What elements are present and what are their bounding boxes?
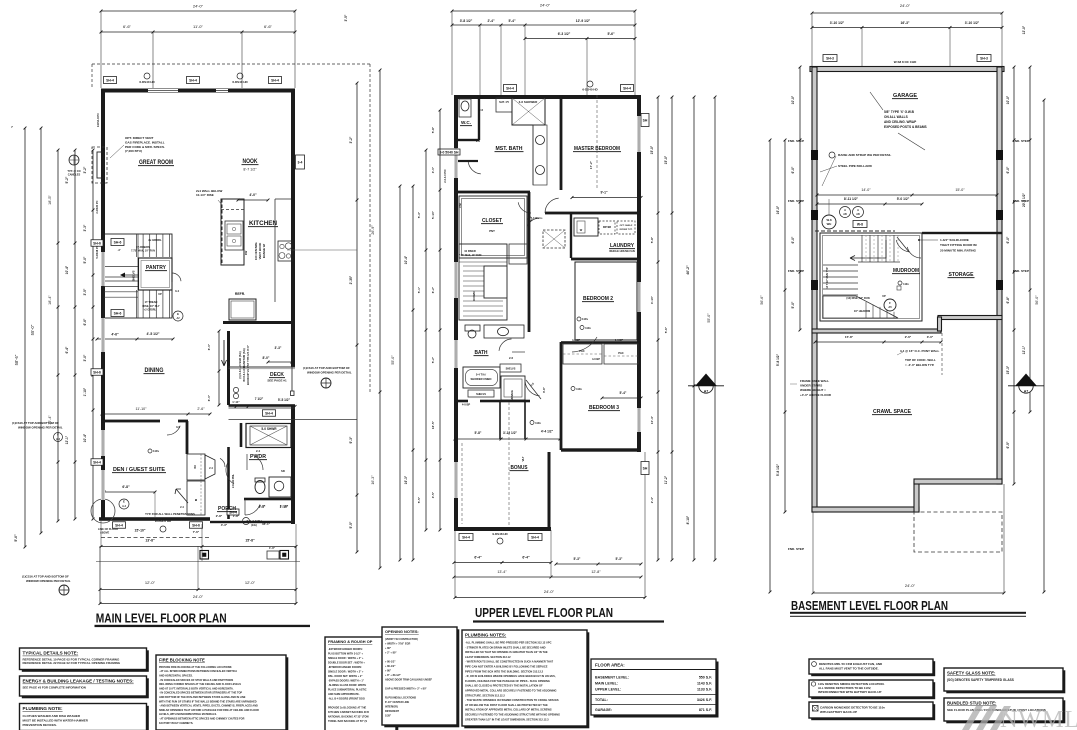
svg-text:56'-0": 56'-0" — [1035, 295, 1039, 305]
svg-text:2'-4": 2'-4" — [487, 19, 495, 23]
main plan left exterior wall — [101, 89, 105, 520]
svg-text:MUDROOM: MUDROOM — [893, 268, 919, 274]
svg-text:SH-4: SH-4 — [106, 79, 114, 83]
master bath vanity — [533, 125, 547, 185]
svg-text:6'-0": 6'-0" — [1006, 236, 1010, 243]
svg-text:24'-0": 24'-0" — [540, 3, 551, 8]
main plan left dimension lines — [14, 127, 94, 549]
svg-text:AA: AA — [1023, 381, 1029, 385]
stairs texts — [131, 238, 162, 312]
section marker AA/A7 basement — [1008, 374, 1044, 394]
svg-text:110v: 110v — [903, 282, 909, 286]
svg-text:WINDOW OPENING PER DETAIL: WINDOW OPENING PER DETAIL — [18, 426, 63, 430]
svg-text:FACTORY BUILT CHIMNEYS.: FACTORY BUILT CHIMNEYS. — [159, 722, 194, 725]
svg-text:18'-5": 18'-5" — [48, 195, 52, 205]
fire blocking note block — [158, 657, 288, 730]
svg-text:(EG): (EG) — [251, 523, 257, 527]
svg-text:INTERCONNECTED WITH BATTERY BA: INTERCONNECTED WITH BATTERY BACK-UP — [818, 690, 881, 694]
svg-text:5'-4": 5'-4" — [620, 391, 627, 395]
svg-text:- TUB WASTE OPENINGS IN FR: - TUB WASTE OPENINGS IN FRAMED CONSTRUCT… — [465, 698, 559, 702]
svg-text:5'-0 1/2": 5'-0 1/2" — [897, 197, 910, 201]
svg-text:15'-8": 15'-8" — [245, 539, 255, 543]
svg-text:HOOKUP VG PST TYP. HT. 8'-0": HOOKUP VG PST TYP. HT. 8'-0" — [246, 344, 250, 385]
opening notes block — [384, 629, 459, 727]
svg-text:10 RISER: 10 RISER — [464, 249, 476, 253]
svg-text:4'-5 1/2": 4'-5 1/2" — [147, 332, 160, 336]
svg-text:SHALL BE CLOSED & PROTECTE: SHALL BE CLOSED & PROTECTED BY THE INSTA… — [465, 684, 543, 688]
svg-text:STORAGE: STORAGE — [949, 272, 975, 278]
svg-text:6'-0": 6'-0" — [207, 343, 211, 350]
svg-text:SH-6: SH-6 — [192, 524, 200, 528]
stairs main level — [104, 234, 172, 318]
basement stairs arrow and notes — [826, 240, 896, 313]
svg-text:FND. STEP: FND. STEP — [788, 269, 804, 273]
svg-text:NOOK: NOOK — [243, 159, 259, 165]
room label BEDROOM 2 — [575, 262, 637, 340]
chase box — [509, 244, 527, 264]
svg-text:7.73" MAX, 10" RUN: 7.73" MAX, 10" RUN — [131, 250, 155, 253]
svg-text:55'-0": 55'-0" — [707, 313, 711, 323]
upper left dimension columns — [391, 109, 441, 562]
svg-text:PLUS BOTTOM WITH 3-1/2" +: PLUS BOTTOM WITH 3-1/2" + — [328, 652, 364, 655]
svg-text:3-6 SHOWER: 3-6 SHOWER — [519, 100, 539, 104]
svg-text:8'-0": 8'-0" — [263, 356, 270, 360]
svg-text:3'-10 1/2": 3'-10 1/2" — [830, 21, 845, 25]
svg-text:5'-0": 5'-0" — [791, 301, 795, 308]
svg-text:NWMLS: NWMLS — [1000, 706, 1077, 730]
svg-text:SH-4: SH-4 — [462, 536, 470, 540]
svg-text:TIGHT FITTING DOOR W/: TIGHT FITTING DOOR W/ — [940, 243, 977, 247]
bonus header boxes below — [459, 532, 542, 544]
svg-text:5-DS48 PC: 5-DS48 PC — [95, 245, 99, 258]
svg-text:SH-4: SH-4 — [531, 536, 539, 540]
closet room — [458, 196, 527, 258]
svg-text:AND HORIZONTAL SPACES.: AND HORIZONTAL SPACES. — [159, 674, 193, 677]
svg-text:FND. STEP: FND. STEP — [788, 547, 804, 551]
svg-text:3426 S.F.: 3426 S.F. — [697, 698, 712, 702]
floor area table — [591, 659, 719, 718]
svg-text:110v: 110v — [153, 449, 160, 453]
framing and rough opening note block — [327, 639, 398, 730]
svg-text:TYPICAL DETAILS NOTE:: TYPICAL DETAILS NOTE: — [23, 651, 79, 656]
hall wall upper mid — [528, 192, 531, 332]
svg-text:SHOWER CMBO: SHOWER CMBO — [470, 377, 491, 381]
svg-text:DENOTES MIN. 50 CFM EXHAUST FA: DENOTES MIN. 50 CFM EXHAUST FAN, AND — [819, 662, 883, 666]
tub shower combo — [463, 364, 521, 397]
svg-text:(1)CS16 AT TOP AND BOTTOM OF: (1)CS16 AT TOP AND BOTTOM OF — [22, 575, 69, 579]
porch posts — [96, 546, 300, 562]
svg-text:SD: SD — [281, 469, 285, 473]
svg-text:APPROVED METAL COLLARS SECU: APPROVED METAL COLLARS SECURELY FASTENED… — [465, 689, 557, 693]
svg-text:STEEL PIPE BOLLARD: STEEL PIPE BOLLARD — [838, 164, 873, 168]
svg-text:2x GRDRL: 2x GRDRL — [148, 238, 162, 242]
svg-text:GARAGE: GARAGE — [893, 93, 917, 99]
svg-text:A7: A7 — [1024, 390, 1029, 394]
svg-text:-3': -3' — [118, 248, 121, 252]
svg-text:SH-6: SH-6 — [114, 241, 122, 245]
main plan bottom wall den — [99, 517, 210, 521]
smoke detection note box — [811, 682, 935, 699]
svg-text:PORCH: PORCH — [218, 506, 236, 512]
svg-text:DEN / GUEST SUITE: DEN / GUEST SUITE — [113, 467, 166, 473]
main plan bottom wall headers — [113, 519, 203, 534]
svg-text:3'-2": 3'-2" — [83, 166, 87, 173]
master bedroom dim 9'-1" — [571, 191, 643, 199]
upper right dimension columns — [641, 96, 716, 562]
svg-text:15'-0": 15'-0" — [650, 145, 654, 154]
svg-text:FND. STEP: FND. STEP — [1013, 139, 1029, 143]
svg-text:58'-6": 58'-6" — [14, 354, 19, 365]
upper plan step wall bonus-bedroom3 — [548, 452, 551, 529]
svg-text:MUST BE INSTALLED WITH WATE: MUST BE INSTALLED WITH WATER-HAMMER — [23, 719, 89, 723]
svg-text:3'-5": 3'-5" — [344, 14, 348, 21]
main level plan — [11, 4, 381, 628]
basement bottom dim — [812, 484, 1006, 594]
svg-text:6'-2": 6'-2" — [431, 286, 435, 293]
svg-text:ALL FANS MUST VENT TO THE OUTS: ALL FANS MUST VENT TO THE OUTSIDE. — [819, 667, 879, 671]
svg-text:BUNDLED STUD NOTE:: BUNDLED STUD NOTE: — [947, 701, 997, 706]
svg-text:DECK: DECK — [270, 372, 284, 378]
svg-text:2-DS30 PC: 2-DS30 PC — [95, 200, 99, 213]
svg-text:5'-5 1/2": 5'-5 1/2" — [278, 398, 291, 402]
svg-text:BASEMENT LEVEL:: BASEMENT LEVEL: — [595, 676, 629, 680]
svg-text:GAP & PRESSED WIDTH + 2" + 80: GAP & PRESSED WIDTH + 2" + 80" — [385, 687, 427, 690]
svg-text:5'-8 1/2": 5'-8 1/2" — [776, 353, 780, 366]
svg-text:OPT. SHELF: OPT. SHELF — [620, 225, 633, 227]
svg-text:SH-4: SH-4 — [265, 412, 273, 416]
upper plan window gaps — [454, 116, 641, 498]
laundry room — [570, 213, 635, 258]
bedroom3 entry arcs — [571, 326, 642, 400]
svg-text:INSTALLED SO THAT NO OPENING I: INSTALLED SO THAT NO OPENING IS GREATER … — [465, 650, 548, 654]
svg-text:18'-4": 18'-4" — [48, 295, 52, 305]
svg-text:- IF, OR IN BUILDINGS WHERE: - IF, OR IN BUILDINGS WHERE OPENINGS HAV… — [465, 674, 556, 678]
svg-text:AND SHIM APPROPRIATE.: AND SHIM APPROPRIATE. — [328, 693, 360, 696]
svg-text:16'-3": 16'-3" — [901, 21, 910, 25]
svg-text:E: E — [123, 500, 125, 504]
svg-text:KITCHEN: KITCHEN — [249, 221, 277, 227]
plumbing notes block upper — [464, 632, 589, 728]
svg-text:(13) RISE, 10" RUN: (13) RISE, 10" RUN — [846, 296, 869, 300]
svg-text:SH-6: SH-6 — [93, 371, 101, 375]
kitchen south wall — [223, 321, 295, 324]
room label MUDROOM — [892, 268, 920, 290]
svg-text:5'-3": 5'-3" — [417, 211, 421, 218]
attic access — [543, 230, 565, 248]
svg-text:10-1/4" RISE: 10-1/4" RISE — [196, 193, 214, 197]
svg-text:A5: A5 — [888, 305, 892, 309]
svg-text:+ 80": + 80" — [385, 647, 392, 650]
svg-text:CRAWL SPACE: CRAWL SPACE — [873, 409, 911, 415]
raise and strap note — [820, 152, 891, 186]
dining dim line 4-6 4-5half — [96, 332, 175, 340]
svg-text:6'-4": 6'-4" — [474, 556, 482, 560]
upper plan top dim line 3 — [524, 32, 637, 95]
svg-text:SH-4: SH-4 — [115, 524, 123, 528]
svg-text:UP: UP — [882, 294, 886, 298]
bedroom3 closets — [561, 338, 641, 364]
knee wall note — [790, 379, 832, 397]
basement stairs lower flight — [823, 265, 898, 318]
svg-text:E: E — [177, 312, 179, 316]
svg-text:A: A — [844, 208, 846, 212]
svg-text:AND CEILING. WRAP: AND CEILING. WRAP — [884, 120, 917, 124]
storage floor step — [814, 316, 1002, 376]
svg-text:110v: 110v — [582, 317, 589, 321]
garage gwb note — [870, 92, 927, 150]
svg-text:3'-3": 3'-3" — [83, 224, 87, 231]
svg-text:INCLUDING FURRED SPACES AT THE: INCLUDING FURRED SPACES AT THE CEILING A… — [159, 683, 241, 686]
svg-text:2'-6": 2'-6" — [197, 407, 205, 411]
svg-text:AND BOTTOM OF THE RUN AND BET: AND BOTTOM OF THE RUN AND BETWEEN STUDS … — [159, 696, 246, 699]
svg-text:2-4: 2-4 — [180, 505, 184, 509]
svg-text:FND. STEP: FND. STEP — [788, 139, 804, 143]
main plan right dimension lines — [11, 14, 381, 569]
basement header boxes — [823, 55, 991, 65]
svg-text:9'-3": 9'-3" — [349, 436, 353, 443]
svg-text:56'-6": 56'-6" — [760, 295, 764, 305]
svg-text:12'-8": 12'-8" — [591, 570, 601, 574]
svg-text:SINGLE DOOR : WIDTH + 2" +: SINGLE DOOR : WIDTH + 2" + — [328, 670, 364, 673]
svg-text:4'-0": 4'-0" — [249, 193, 257, 197]
stair wall header boxes — [111, 239, 183, 322]
main plan top wall window headers — [148, 89, 228, 92]
svg-text:(1)CS16 AT TOP AND BOTTOM OF: (1)CS16 AT TOP AND BOTTOM OF — [12, 421, 59, 425]
svg-text:- AT OPENINGS BETWEEN ATTIC SP: - AT OPENINGS BETWEEN ATTIC SPACES AND C… — [159, 717, 245, 720]
svg-text:UPPER LEVEL FLOOR PLAN: UPPER LEVEL FLOOR PLAN — [475, 605, 613, 620]
svg-text:100 CFM MIN.: 100 CFM MIN. — [254, 242, 258, 260]
svg-text:1/28": 1/28" — [385, 714, 392, 717]
svg-text:GREAT ROOM: GREAT ROOM — [139, 160, 173, 166]
room label DEN / GUEST SUITE — [112, 449, 166, 473]
water heater circles — [822, 199, 867, 229]
svg-text:16'-3": 16'-3" — [371, 475, 375, 485]
svg-text:WI: WI — [193, 465, 197, 469]
svg-text:1133 S.F.: 1133 S.F. — [697, 688, 712, 692]
svg-text:14'-0": 14'-0" — [861, 188, 871, 192]
stairs direction arrow — [118, 248, 158, 278]
svg-text:CLOSET: CLOSET — [482, 218, 503, 224]
left wall window gaps — [101, 252, 105, 500]
svg-text:F: F — [57, 433, 59, 437]
svg-text:KITCHEN CABINET BACKING IN B: KITCHEN CABINET BACKING IN B — [328, 711, 369, 714]
svg-text:+ 2" + 80": + 2" + 80" — [385, 651, 397, 654]
svg-text:-BYPASS DOORS: WIDTH + 1": -BYPASS DOORS: WIDTH + 1" — [328, 679, 365, 682]
svg-text:3'-0": 3'-0" — [927, 335, 934, 339]
main plan header label boxes SH-4 — [104, 73, 282, 84]
svg-text:10'-0": 10'-0" — [1006, 95, 1010, 104]
porch front door arc — [245, 499, 260, 515]
pantry door — [172, 273, 181, 293]
svg-text:SH-4: SH-4 — [189, 79, 197, 83]
svg-text:VENT HOOD: VENT HOOD — [258, 243, 262, 260]
svg-text:A-2: A-2 — [122, 505, 127, 508]
svg-text:PLUMBING NOTE:: PLUMBING NOTE: — [23, 706, 64, 711]
svg-text:WH: WH — [827, 222, 832, 226]
svg-text:4'-3": 4'-3" — [221, 523, 228, 527]
svg-text:9'-1": 9'-1" — [600, 191, 608, 195]
svg-text:7.75" MAX, 10" RUN: 7.75" MAX, 10" RUN — [459, 254, 482, 257]
svg-text:+ 80-1/2": + 80-1/2" — [385, 665, 396, 668]
svg-text:2-4: 2-4 — [209, 466, 213, 470]
svg-text:4'-4 1/2": 4'-4 1/2" — [541, 430, 554, 434]
main plan title — [95, 611, 311, 628]
basement top dim line2 — [811, 21, 1004, 67]
main plan bottom dim line 13-8 15-8 — [100, 521, 298, 561]
svg-text:4-0 BP: 4-0 BP — [462, 403, 471, 407]
nook dimension 4'-0" — [237, 193, 270, 201]
hall door arcs — [518, 202, 542, 227]
svg-text:FLOOR AREA:: FLOOR AREA: — [595, 663, 625, 668]
svg-text:16'-5": 16'-5" — [431, 420, 435, 429]
svg-text:GARAGE:: GARAGE: — [595, 708, 612, 712]
basement foundation walls — [810, 67, 1004, 513]
svg-text:3'-0": 3'-0" — [431, 166, 435, 173]
svg-text:5'-1": 5'-1" — [417, 286, 421, 293]
powder toilet and sink — [255, 469, 291, 497]
svg-text:AB: AB — [856, 213, 860, 216]
svg-text:3'-5": 3'-5" — [431, 491, 435, 498]
svg-text:PNT: PNT — [489, 229, 495, 233]
svg-text:5'-8": 5'-8" — [431, 126, 435, 133]
svg-text:1'-10": 1'-10" — [83, 387, 87, 396]
svg-text:+ 80-1/2": + 80-1/2" — [385, 660, 396, 663]
svg-text:SH-6: SH-6 — [93, 242, 101, 246]
svg-text:GAS FIREPLACE. INSTALL: GAS FIREPLACE. INSTALL — [125, 140, 165, 144]
svg-text:6'-8": 6'-8" — [122, 485, 130, 489]
svg-text:8'-10" CENTER LINE: 8'-10" CENTER LINE — [385, 701, 409, 704]
basement stairs upper flight — [858, 235, 900, 262]
plumbing note block — [22, 706, 149, 730]
svg-text:110v: 110v — [533, 216, 540, 220]
svg-text:PIPES FROM THE BOX INTO THE: PIPES FROM THE BOX INTO THE BUILDING. SE… — [465, 669, 544, 673]
mst bath wall and door — [456, 95, 562, 193]
fireplace note text — [110, 136, 165, 158]
svg-text:9-DS3-0 HD: 9-DS3-0 HD — [155, 519, 172, 523]
svg-text:PLUMBING NOTES:: PLUMBING NOTES: — [465, 633, 507, 638]
powder door — [247, 454, 263, 470]
svg-text:5-4 T/A /: 5-4 T/A / — [476, 373, 487, 377]
svg-text:BEDROOM 2: BEDROOM 2 — [583, 296, 613, 302]
svg-text:2-6: 2-6 — [509, 356, 513, 360]
upper plan top exterior wall — [454, 95, 641, 99]
svg-text:FLOORS, CEILINGS FOR THE PA: FLOORS, CEILINGS FOR THE PASSAGE OF PIPE… — [465, 679, 550, 683]
svg-text:1-6 BP: 1-6 BP — [615, 338, 623, 342]
svg-text:110v: 110v — [535, 421, 541, 425]
basement dashed patio — [914, 512, 1002, 552]
window opening note second — [22, 575, 71, 596]
main plan right exterior wall lower — [291, 405, 295, 524]
typical details note block — [22, 650, 149, 672]
svg-text:TOTAL:: TOTAL: — [595, 698, 608, 702]
svg-text:1'-10": 1'-10" — [280, 504, 289, 508]
upper plan right exterior wall — [637, 95, 641, 452]
svg-text:8'-7 1/2": 8'-7 1/2" — [243, 168, 257, 172]
svg-text:A: A — [857, 208, 859, 212]
svg-text:8'-11 1/2": 8'-11 1/2" — [844, 197, 859, 201]
svg-text:ENERGY & BUILDING LEAKAGE / TE: ENERGY & BUILDING LEAKAGE / TESTING NOTE… — [23, 679, 135, 684]
svg-text:RANGE W/: RANGE W/ — [262, 244, 266, 259]
svg-text:13'-8": 13'-8" — [145, 539, 155, 543]
svg-text:6'-0": 6'-0" — [207, 394, 211, 401]
svg-text:REFR.: REFR. — [235, 292, 245, 296]
kitchen island with sink — [221, 199, 248, 265]
svg-text:6'-0": 6'-0" — [1006, 166, 1010, 173]
svg-text:VLT: VLT — [521, 456, 525, 461]
svg-text:7'-6": 7'-6" — [193, 530, 200, 534]
svg-text:5'-5": 5'-5" — [417, 496, 421, 503]
svg-text:DIFFERENT: DIFFERENT — [385, 710, 400, 713]
svg-text:1-3/4" SOLID-CORE: 1-3/4" SOLID-CORE — [940, 238, 969, 242]
svg-text:5'-8": 5'-8" — [650, 236, 654, 243]
svg-text:10'-4": 10'-4" — [650, 415, 654, 424]
deck area — [207, 330, 295, 407]
svg-text:SH-3: SH-3 — [980, 57, 988, 61]
svg-text:RISE, 10" PLY: RISE, 10" PLY — [142, 304, 159, 308]
svg-text:PROVIDE 2x BLOCKING AT THE: PROVIDE 2x BLOCKING AT THE — [328, 706, 367, 709]
svg-text:7 1/2": 7 1/2" — [255, 397, 264, 401]
svg-text:TYP. @ CO: TYP. @ CO — [67, 169, 80, 173]
svg-text:6'-4": 6'-4" — [522, 556, 530, 560]
svg-text:SHELVS: SHELVS — [476, 393, 486, 396]
svg-text:3'-12 1/2": 3'-12 1/2" — [503, 431, 517, 435]
svg-text:SH-6: SH-6 — [114, 312, 122, 316]
garage south dashed wall — [815, 231, 1002, 234]
svg-text:110v: 110v — [585, 326, 591, 330]
svg-text:2-4: 2-4 — [256, 449, 260, 453]
main plan right exterior wall — [291, 89, 295, 368]
svg-text:SHELVS: SHELVS — [132, 270, 136, 281]
den dim 6'-8" — [103, 485, 157, 517]
svg-text:24'-0": 24'-0" — [193, 4, 204, 9]
svg-text:3-4 @ 16" O.C. PONY WALL: 3-4 @ 16" O.C. PONY WALL — [900, 349, 939, 353]
energy and building leakage note block — [22, 678, 149, 698]
room label BONUS — [462, 402, 529, 527]
svg-text:SHT. 4'5: SHT. 4'5 — [499, 100, 509, 104]
svg-text:= -3'-0" BELOW TYP.: = -3'-0" BELOW TYP. — [905, 363, 934, 367]
svg-text:15'-0": 15'-0" — [955, 188, 965, 192]
svg-text:LEAST DIMENSION. SECTION 312.: LEAST DIMENSION. SECTION 312.12 — [465, 655, 511, 659]
svg-text:WITH THE RUN OF STAIRS IF THE: WITH THE RUN OF STAIRS IF THE WALLS BEHI… — [159, 700, 257, 703]
svg-text:2-6 1/2 PNL: 2-6 1/2 PNL — [231, 474, 235, 488]
svg-text:4-0 BP: 4-0 BP — [592, 357, 600, 361]
svg-text:-ALL PLUMBING SHALL BE PRE: -ALL PLUMBING SHALL BE PRE-PRESSED PER S… — [465, 641, 552, 645]
svg-text:BEDROOM 3: BEDROOM 3 — [589, 405, 619, 411]
svg-text:OPENING NOTES:: OPENING NOTES: — [385, 629, 419, 634]
svg-text:10'-0": 10'-0" — [791, 95, 795, 104]
svg-text:W-S8 8 OC CHD: W-S8 8 OC CHD — [894, 60, 917, 64]
svg-text:SECURELY FASTENED TO THE A: SECURELY FASTENED TO THE ADJOINING STRUC… — [465, 713, 560, 717]
svg-text:SH: SH — [643, 119, 648, 123]
svg-text:6'-6": 6'-6" — [123, 24, 132, 29]
svg-text:12'-9 1/2": 12'-9 1/2" — [576, 19, 591, 23]
svg-text:SEE PAGE #1: SEE PAGE #1 — [267, 379, 287, 383]
svg-text:PANTRY: PANTRY — [146, 265, 166, 271]
main plan top exterior wall — [101, 89, 295, 93]
svg-text:8'-10": 8'-10" — [686, 515, 690, 524]
svg-text:WINDOW OPENING PER DETAIL: WINDOW OPENING PER DETAIL — [307, 371, 352, 375]
svg-text:W/ 8-6-1-0 PHANTOM (SG): W/ 8-6-1-0 PHANTOM (SG) — [242, 348, 246, 382]
svg-text:4-0 BP: 4-0 BP — [572, 338, 580, 342]
svg-text:SHELVS: SHELVS — [506, 368, 516, 371]
svg-text:2'-35": 2'-35" — [349, 275, 353, 284]
svg-text:PAC: PAC — [618, 351, 624, 355]
svg-text:5'-8 1/2": 5'-8 1/2" — [776, 463, 780, 476]
svg-text:2'-4": 2'-4" — [650, 496, 654, 503]
svg-text:46'-1": 46'-1" — [262, 522, 271, 526]
svg-text:LEVELS, WITH NONCOMBUSTIBLE MA: LEVELS, WITH NONCOMBUSTIBLE MATERIALS. — [159, 713, 217, 716]
svg-text:6'-0": 6'-0" — [791, 236, 795, 243]
